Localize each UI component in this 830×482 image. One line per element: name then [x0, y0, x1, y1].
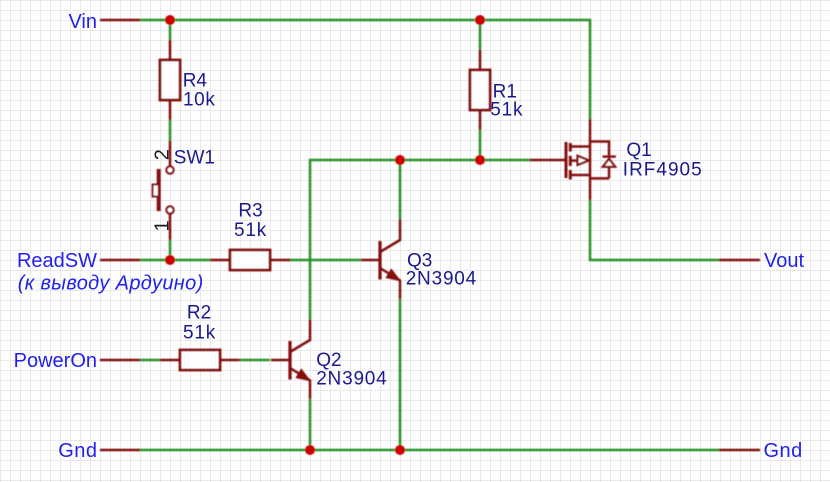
svg-text:(к выводу Ардуино): (к выводу Ардуино) [18, 273, 204, 295]
svg-text:R2: R2 [187, 302, 211, 323]
svg-text:2: 2 [151, 149, 173, 160]
svg-text:R3: R3 [238, 200, 262, 221]
svg-text:Q1: Q1 [626, 140, 651, 161]
svg-text:ReadSW: ReadSW [17, 250, 97, 272]
svg-text:2N3904: 2N3904 [316, 368, 387, 389]
svg-text:2N3904: 2N3904 [406, 268, 477, 289]
svg-text:51k: 51k [490, 99, 523, 120]
svg-text:Gnd: Gnd [58, 440, 97, 462]
svg-text:SW1: SW1 [174, 148, 215, 169]
svg-text:Vout: Vout [764, 250, 804, 272]
svg-text:1: 1 [151, 220, 173, 231]
svg-text:51k: 51k [183, 322, 216, 343]
svg-text:IRF4905: IRF4905 [623, 160, 703, 181]
svg-text:Gnd: Gnd [764, 440, 803, 462]
svg-text:PowerOn: PowerOn [14, 350, 97, 372]
svg-text:Vin: Vin [68, 11, 97, 33]
svg-text:51k: 51k [234, 220, 267, 241]
svg-text:10k: 10k [183, 89, 215, 110]
